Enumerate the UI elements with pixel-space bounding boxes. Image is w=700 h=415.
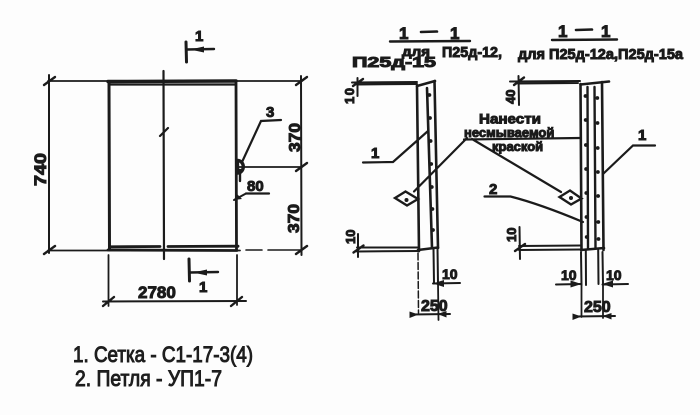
tick 370 top <box>296 77 307 85</box>
section B dim 250 left arrow <box>573 314 582 321</box>
panel seam axis line <box>162 71 165 259</box>
panel bottom edge <box>108 249 237 252</box>
section A top dim vertical <box>357 78 359 96</box>
svg-text:250: 250 <box>421 298 448 315</box>
section B bottom extension left single <box>581 285 583 317</box>
section B top dim tick <box>514 78 524 86</box>
svg-text:1: 1 <box>199 279 207 296</box>
section A strip right edge <box>435 81 439 248</box>
panel mesh bottom wire left segment <box>111 245 160 248</box>
panel left edge <box>108 82 112 251</box>
section B dim 10 left arrow <box>571 281 582 288</box>
dimension 80 underline <box>246 192 269 194</box>
section mark bottom: bar <box>188 259 192 281</box>
bottom dim extension right <box>236 255 238 305</box>
section B dim 10 right arrow <box>602 281 613 288</box>
svg-text:1: 1 <box>399 24 408 43</box>
tick 2780 right <box>231 297 242 306</box>
section B paint-mark diamond <box>560 191 582 205</box>
svg-text:1: 1 <box>195 28 203 45</box>
section mark top: arrow line <box>187 48 214 51</box>
dimension 80 arrow <box>234 194 246 201</box>
section A bottom extension double line <box>357 248 418 252</box>
section B mesh dots line1 <box>584 94 589 239</box>
section B bottom extension double line <box>519 246 581 251</box>
section B bottom extension right pair <box>598 250 603 284</box>
svg-text:2. Петля - УП1-7: 2. Петля - УП1-7 <box>75 366 222 391</box>
section mark bottom: arrow line <box>190 271 218 274</box>
svg-text:10: 10 <box>504 228 519 242</box>
paint note leader to left diamond <box>414 138 467 192</box>
section B dim 10 right line <box>603 283 629 286</box>
lifting hook <box>237 160 243 173</box>
svg-text:П25д-15: П25д-15 <box>352 54 436 71</box>
section A header underline <box>390 40 470 43</box>
section B bottom dim vertical <box>519 227 522 259</box>
tick 370 bottom <box>296 246 307 254</box>
svg-text:740: 740 <box>31 153 50 186</box>
svg-text:1: 1 <box>371 145 379 162</box>
section A dim 10 line <box>433 282 460 285</box>
section B bottom extension right single <box>602 284 604 318</box>
section B header underline <box>552 38 617 41</box>
tick 370 middle <box>296 163 307 171</box>
svg-text:10: 10 <box>561 267 577 283</box>
dimension line 740 <box>48 75 50 253</box>
section A bottom extension single <box>437 283 440 320</box>
section B strip bottom edge <box>581 248 604 250</box>
section mark top: bar <box>185 42 189 62</box>
section B strip mesh line 1 <box>586 87 589 248</box>
bottom dim extension left <box>108 255 110 306</box>
section A dim 250 left arrow <box>410 312 419 319</box>
section B bottom dim tick <box>515 244 525 251</box>
svg-text:10: 10 <box>442 266 458 282</box>
extension line at hook level <box>237 166 302 168</box>
panel right edge <box>235 81 238 250</box>
dimension line 370/370 <box>300 76 303 255</box>
section A bottom dim vertical <box>357 234 359 257</box>
svg-text:10: 10 <box>343 230 358 244</box>
svg-text:40: 40 <box>503 90 518 104</box>
section A dim 10 arrow <box>433 280 444 287</box>
svg-text:3: 3 <box>266 104 274 121</box>
section A bottom dim tick <box>354 246 364 253</box>
section B diamond dot <box>569 196 573 200</box>
svg-text:для П25д-12а,П25д-15а: для П25д-12а,П25д-15а <box>518 46 684 63</box>
section A mesh dots <box>428 93 435 232</box>
tick 2780 left <box>103 297 114 306</box>
section B strip top edge <box>581 82 610 85</box>
section B strip mesh line 2 <box>595 87 596 248</box>
section B dim 250 right arrow <box>603 313 612 320</box>
svg-text:1: 1 <box>638 127 646 144</box>
section A top extension line <box>352 82 417 85</box>
bottom extension line <box>48 250 240 252</box>
section A strip bottom edge <box>418 248 438 251</box>
section B strip outer left edge <box>581 84 582 250</box>
svg-text:1: 1 <box>601 22 610 41</box>
svg-text:370: 370 <box>286 204 303 233</box>
section A top dim tick <box>353 79 363 86</box>
paint note leader to right diamond <box>472 139 561 192</box>
panel mesh top wire (second line) <box>110 83 235 85</box>
section B top dim vertical <box>518 76 521 105</box>
section A bottom extension mesh+face double <box>434 248 439 283</box>
panel mesh bottom wire right segment <box>168 245 238 248</box>
seam break slash <box>160 128 168 136</box>
section A diamond dot <box>405 198 409 202</box>
tick 740 bottom <box>44 246 55 254</box>
section A callout 1 leader <box>363 131 428 163</box>
section B top extension line <box>510 81 580 84</box>
section A dim 250 right arrow <box>438 311 447 318</box>
section B dim 10 left line <box>556 283 581 286</box>
tick 740 top <box>44 77 55 85</box>
section A strip left edge <box>417 86 419 251</box>
svg-text:370: 370 <box>287 123 304 152</box>
section B callout 1 leader <box>603 146 655 175</box>
hook stem <box>239 170 241 181</box>
section B strip outer right edge <box>602 82 604 250</box>
section A strip top edge <box>417 81 435 86</box>
bottom extension line right dashed part <box>246 249 302 251</box>
section A dim 250 line <box>411 313 450 316</box>
panel outline top edge <box>108 79 236 83</box>
dimension line 2780 <box>103 300 246 303</box>
section A strip mesh line <box>427 88 432 248</box>
svg-text:краской: краской <box>492 139 543 154</box>
section B bottom extension left pair <box>581 250 586 285</box>
svg-text:10: 10 <box>342 88 357 104</box>
top extension line <box>48 80 302 82</box>
section A bottom extension line left face <box>417 253 420 313</box>
svg-text:250: 250 <box>584 299 611 316</box>
svg-text:2780: 2780 <box>138 283 176 302</box>
section B mesh dots line2 <box>595 96 600 241</box>
callout 2 leader <box>485 197 584 223</box>
paint note underline <box>464 138 580 140</box>
section B dim 250 line <box>575 315 615 318</box>
svg-text:10: 10 <box>606 267 622 283</box>
svg-text:П25д-12,: П25д-12, <box>442 44 502 61</box>
svg-text:80: 80 <box>247 178 264 195</box>
section A paint-mark diamond <box>395 192 418 206</box>
svg-text:1: 1 <box>558 22 567 41</box>
leader 3 line <box>243 120 282 161</box>
svg-text:1. Сетка - С1-17-3(4): 1. Сетка - С1-17-3(4) <box>73 342 253 367</box>
